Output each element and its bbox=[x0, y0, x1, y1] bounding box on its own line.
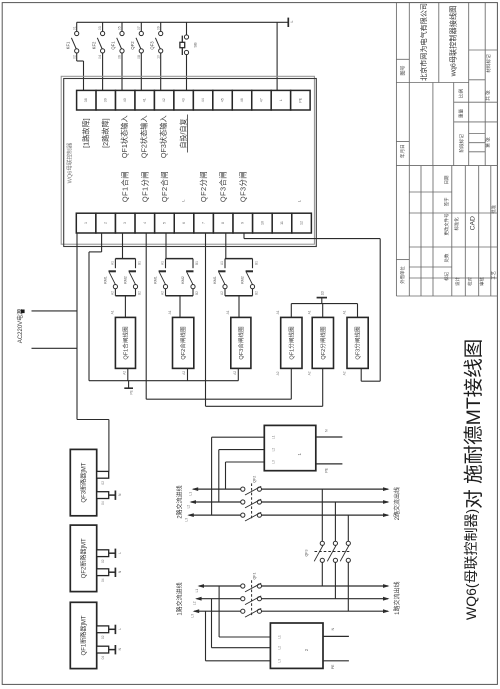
svg-text:A2: A2 bbox=[307, 371, 312, 375]
terminal strip upper pin PE bbox=[291, 90, 310, 110]
power monitor box 2 bbox=[270, 623, 323, 668]
svg-text:8: 8 bbox=[221, 222, 226, 224]
arrowheads on line ends bbox=[383, 487, 390, 491]
svg-text:A2: A2 bbox=[232, 371, 237, 375]
svg-text:B2: B2 bbox=[194, 291, 199, 295]
terminal strip lower pin 9 bbox=[233, 213, 253, 233]
svg-text:QF3分闸线圈: QF3分闸线圈 bbox=[354, 326, 362, 360]
svg-text:A1: A1 bbox=[341, 310, 346, 314]
svg-text:KM1: KM1 bbox=[104, 276, 109, 284]
svg-text:QF2合闸线圈: QF2合闸线圈 bbox=[179, 326, 187, 360]
wire QF2 to terminal 41 bbox=[140, 53, 142, 90]
wire QF1分闸线圈 top stub bbox=[290, 304, 292, 318]
svg-text:QF1断路器]MT: QF1断路器]MT bbox=[79, 615, 88, 655]
svg-text:A1: A1 bbox=[225, 310, 230, 314]
svg-text:图号: 图号 bbox=[399, 65, 406, 75]
svg-text:QF2分闸线圈: QF2分闸线圈 bbox=[319, 326, 327, 360]
svg-text:共 张: 共 张 bbox=[485, 90, 492, 101]
svg-text:校对: 校对 bbox=[467, 277, 474, 286]
svg-text:KM2: KM2 bbox=[240, 276, 245, 284]
svg-text:比例: 比例 bbox=[458, 89, 465, 99]
svg-text:QF2: QF2 bbox=[252, 476, 257, 483]
svg-text:QF3断路器]MT: QF3断路器]MT bbox=[79, 462, 88, 502]
svg-text:03: 03 bbox=[97, 26, 102, 30]
bus tie drops from 2-line bbox=[321, 489, 323, 541]
terminal strip lower pin 5 bbox=[155, 213, 175, 233]
relay contacts KM1/KM2 bbox=[165, 233, 167, 259]
coil QF2分闸线圈 bbox=[312, 317, 333, 368]
pushbutton SB1 bbox=[186, 22, 188, 35]
terminal strip upper pin 43 bbox=[174, 90, 193, 110]
svg-text:PE: PE bbox=[298, 97, 303, 102]
bus tie drops to 1-line bbox=[321, 562, 323, 586]
box2 stub PE bbox=[323, 660, 349, 662]
wire QF1 to terminal 40 bbox=[121, 53, 123, 90]
wire contacts to coil bbox=[124, 296, 126, 318]
svg-text:A1: A1 bbox=[275, 310, 280, 314]
svg-text:L: L bbox=[279, 99, 284, 101]
svg-text:wq6母联控制器接线图: wq6母联控制器接线图 bbox=[449, 6, 459, 78]
wire terminal4 to QF1 opening coil bbox=[145, 233, 147, 399]
svg-text:QF1合闸线圈: QF1合闸线圈 bbox=[121, 326, 129, 360]
coil QF3分闸线圈 bbox=[347, 317, 368, 368]
svg-text:AC220V电源: AC220V电源 bbox=[15, 309, 24, 343]
svg-text:KM2: KM2 bbox=[123, 276, 128, 284]
svg-text:QF2: QF2 bbox=[130, 41, 136, 50]
svg-text:2路交流出线: 2路交流出线 bbox=[392, 487, 401, 520]
svg-text:11: 11 bbox=[280, 221, 285, 225]
svg-text:L1: L1 bbox=[194, 589, 199, 593]
svg-text:2路交流进线: 2路交流进线 bbox=[175, 485, 184, 518]
node 2-line phase L3 bbox=[189, 514, 243, 516]
wire QF3合闸线圈 pin bbox=[237, 368, 239, 380]
wire box1 L3 to line1 bbox=[226, 461, 265, 463]
svg-text:A2: A2 bbox=[121, 371, 126, 375]
terminal strip lower pin 12 bbox=[292, 213, 312, 233]
svg-text:L: L bbox=[181, 199, 186, 201]
terminal strip upper pin L bbox=[271, 90, 290, 110]
coil QF1分闸线圈 bbox=[281, 317, 302, 368]
node L+ top supply bus bbox=[77, 21, 284, 23]
breaker QF2 three-pole bbox=[241, 487, 245, 491]
svg-text:设计: 设计 bbox=[454, 277, 461, 286]
QF3断路器 terminal B bbox=[97, 492, 109, 499]
svg-text:QF3合闸线圈: QF3合闸线圈 bbox=[237, 326, 245, 360]
switch contact KF2 bbox=[102, 22, 104, 31]
svg-text:QF1分闸线圈: QF1分闸线圈 bbox=[287, 326, 295, 360]
title block grid bbox=[395, 3, 397, 296]
svg-text:QF3: QF3 bbox=[149, 41, 155, 50]
terminal strip upper pin 41 bbox=[135, 90, 154, 110]
svg-text:A1: A1 bbox=[159, 261, 164, 265]
relay contacts KM1/KM2 bbox=[225, 233, 227, 259]
svg-text:标准化: 标准化 bbox=[453, 217, 460, 231]
svg-text:10: 10 bbox=[260, 221, 265, 225]
svg-text:L2: L2 bbox=[271, 448, 276, 452]
wire terminal9 to QF3 opening coil bbox=[243, 233, 245, 239]
QF1断路器 terminal B bbox=[97, 646, 109, 653]
terminal strip lower pin 6 bbox=[174, 213, 194, 233]
wire QF1合闸线圈 pin bbox=[127, 368, 129, 380]
breaker unit QF2断路器 bbox=[70, 525, 96, 592]
svg-text:L: L bbox=[290, 21, 295, 23]
svg-text:02: 02 bbox=[100, 635, 105, 639]
node 2-line phase L2 bbox=[191, 501, 243, 503]
svg-text:北京市网为电气有限公司: 北京市网为电气有限公司 bbox=[419, 3, 429, 81]
svg-text:12: 12 bbox=[299, 221, 304, 225]
svg-text:04: 04 bbox=[100, 501, 105, 505]
svg-text:43: 43 bbox=[182, 98, 187, 102]
svg-text:40: 40 bbox=[123, 98, 128, 102]
terminal strip upper pin 42 bbox=[154, 90, 173, 110]
svg-text:自投/自复: 自投/自复 bbox=[179, 119, 189, 149]
svg-text:QF3合闸: QF3合闸 bbox=[218, 171, 229, 202]
wire terminal7 to QF2 opening coil bbox=[205, 233, 207, 406]
svg-text:L3: L3 bbox=[189, 614, 194, 618]
wire KF2 to terminal 39 bbox=[102, 53, 104, 90]
wire QF3分闸线圈 top stub bbox=[357, 304, 359, 318]
wire box2 L2 to line2 bbox=[212, 647, 271, 649]
svg-text:QF1状态输入: QF1状态输入 bbox=[120, 115, 130, 158]
svg-text:2: 2 bbox=[104, 222, 109, 224]
terminal strip upper pin 44 bbox=[193, 90, 212, 110]
wire QF2分闸线圈 top stub bbox=[322, 304, 324, 318]
terminal strip lower pin 4 bbox=[135, 213, 155, 233]
svg-text:更改文件号: 更改文件号 bbox=[443, 213, 450, 236]
svg-text:38: 38 bbox=[84, 98, 89, 102]
svg-text:A2: A2 bbox=[275, 371, 280, 375]
svg-text:外借单位: 外借单位 bbox=[399, 266, 406, 284]
svg-text:02: 02 bbox=[100, 559, 105, 563]
switch contact QF3 bbox=[160, 22, 162, 31]
switch contact KF1 bbox=[76, 22, 78, 31]
svg-text:KM1: KM1 bbox=[213, 276, 218, 284]
svg-text:A2: A2 bbox=[341, 371, 346, 375]
svg-text:08: 08 bbox=[136, 55, 141, 59]
coil QF2合闸线圈 bbox=[173, 317, 194, 368]
AC220V source line N bbox=[32, 347, 78, 349]
svg-text:46: 46 bbox=[240, 98, 245, 102]
svg-text:04: 04 bbox=[97, 55, 102, 59]
svg-text:[1路故障]: [1路故障] bbox=[81, 118, 91, 148]
svg-text:L1: L1 bbox=[277, 635, 282, 639]
svg-text:QF2断路器]MT: QF2断路器]MT bbox=[79, 538, 88, 578]
terminal strip upper pin 38 bbox=[77, 90, 96, 110]
svg-text:QF3状态输入: QF3状态输入 bbox=[159, 115, 169, 158]
svg-text:01: 01 bbox=[71, 26, 76, 30]
svg-text:A2: A2 bbox=[219, 291, 224, 295]
terminal strip upper pin 46 bbox=[232, 90, 251, 110]
svg-text:06: 06 bbox=[117, 55, 122, 59]
terminal strip lower pin 2 bbox=[96, 213, 116, 233]
wire KF1 to terminal 38 bbox=[76, 53, 78, 61]
svg-text:第 张: 第 张 bbox=[485, 137, 492, 148]
svg-text:1路交流出线: 1路交流出线 bbox=[392, 582, 401, 615]
terminal X0 (supply) at bus right end bbox=[284, 21, 289, 23]
svg-text:L3: L3 bbox=[183, 518, 188, 522]
switch contact QF2 bbox=[140, 22, 142, 31]
svg-text:41: 41 bbox=[143, 98, 148, 102]
AC220V source line L bbox=[32, 310, 78, 312]
wire box1 L1 to line3 bbox=[212, 436, 265, 438]
svg-text:QF2状态输入: QF2状态输入 bbox=[140, 115, 150, 158]
wire bus to terminal L bbox=[276, 22, 278, 90]
terminal strip upper pin 39 bbox=[96, 90, 115, 110]
breaker QF1 three-pole bbox=[241, 584, 245, 588]
terminal 1D supply for opening coils bbox=[321, 298, 323, 304]
terminal strip lower pin 3 bbox=[115, 213, 135, 233]
svg-text:L1: L1 bbox=[271, 435, 276, 439]
node 1-line phase L2 bbox=[197, 598, 243, 600]
svg-text:L3: L3 bbox=[277, 659, 282, 663]
wire terminal2 to coil return bus bbox=[101, 233, 103, 252]
node 1-line phase L1 bbox=[199, 585, 243, 587]
svg-text:PE: PE bbox=[324, 467, 329, 472]
svg-text:材料标记: 材料标记 bbox=[485, 54, 492, 73]
svg-text:QF2分闸: QF2分闸 bbox=[198, 171, 209, 202]
terminal strip lower pin 1 bbox=[76, 213, 96, 233]
svg-text:A1: A1 bbox=[110, 310, 115, 314]
svg-text:日期: 日期 bbox=[444, 175, 450, 184]
svg-text:A1: A1 bbox=[219, 261, 224, 265]
svg-text:A1: A1 bbox=[109, 261, 114, 265]
svg-text:签字: 签字 bbox=[443, 197, 450, 206]
svg-text:9: 9 bbox=[241, 222, 246, 224]
svg-text:02: 02 bbox=[71, 55, 76, 59]
wire box2 L1 to line1 bbox=[219, 636, 270, 638]
svg-text:A1: A1 bbox=[307, 310, 312, 314]
svg-text:L2: L2 bbox=[186, 505, 191, 509]
svg-text:09: 09 bbox=[155, 26, 160, 30]
svg-text:3: 3 bbox=[123, 222, 128, 224]
svg-text:04: 04 bbox=[100, 578, 105, 582]
svg-text:QF1合闸: QF1合闸 bbox=[120, 171, 131, 202]
wire contacts to coil bbox=[238, 296, 240, 318]
wire box1 L2 to line2 bbox=[219, 449, 264, 451]
terminal strip lower pin 7 bbox=[194, 213, 214, 233]
svg-text:39: 39 bbox=[104, 98, 109, 102]
box2 stub N bbox=[323, 635, 349, 637]
wire QF3 to terminal 42 bbox=[160, 53, 162, 90]
svg-text:44: 44 bbox=[201, 98, 206, 102]
svg-text:B1: B1 bbox=[194, 261, 199, 265]
node opening coils supply bar bbox=[291, 303, 357, 305]
svg-text:工艺: 工艺 bbox=[491, 270, 497, 279]
svg-text:年月日: 年月日 bbox=[399, 144, 406, 158]
svg-text:QF3: QF3 bbox=[304, 550, 309, 557]
terminal strip upper pin 40 bbox=[116, 90, 135, 110]
box1 stub PE bbox=[316, 463, 343, 465]
svg-text:47: 47 bbox=[259, 98, 264, 102]
terminal strip lower pin 10 bbox=[253, 213, 273, 233]
svg-text:批准: 批准 bbox=[490, 204, 497, 213]
svg-text:B2: B2 bbox=[253, 291, 258, 295]
svg-text:CAD: CAD bbox=[467, 216, 477, 230]
svg-text:L1: L1 bbox=[188, 492, 193, 496]
terminal strip lower pin 8 bbox=[213, 213, 233, 233]
wire terminal1 to AC220V live and QF3 breaker bbox=[76, 233, 78, 420]
svg-text:QF2合闸: QF2合闸 bbox=[159, 171, 170, 202]
node 2-line phase L1 bbox=[193, 488, 243, 490]
svg-text:6: 6 bbox=[182, 222, 187, 224]
svg-text:1路交流进线: 1路交流进线 bbox=[175, 582, 184, 615]
svg-text:KF1: KF1 bbox=[65, 41, 71, 49]
coil QF1合闸线圈 bbox=[115, 317, 135, 368]
svg-text:L2: L2 bbox=[277, 646, 282, 650]
svg-text:处数: 处数 bbox=[443, 253, 450, 262]
svg-text:SB: SB bbox=[193, 42, 199, 48]
svg-text:45: 45 bbox=[220, 98, 225, 102]
QF1断路器 terminal B plug bbox=[109, 649, 116, 651]
svg-text:PE: PE bbox=[128, 390, 133, 394]
svg-text:L: L bbox=[117, 628, 122, 630]
box1 stub N bbox=[316, 436, 343, 438]
relay contacts KM1/KM2 bbox=[122, 233, 124, 259]
svg-text:PE: PE bbox=[330, 664, 335, 669]
wire QF2合闸线圈 pin bbox=[187, 368, 189, 380]
coil return bus 0V bbox=[89, 380, 238, 382]
svg-text:QF1分闸: QF1分闸 bbox=[139, 171, 150, 202]
svg-text:标记: 标记 bbox=[443, 271, 450, 280]
svg-text:7: 7 bbox=[202, 222, 207, 224]
QF1断路器 terminal A bbox=[97, 626, 109, 633]
svg-text:QF1: QF1 bbox=[111, 41, 117, 50]
QF2断路器 terminal A plug bbox=[109, 552, 116, 554]
svg-text:B2: B2 bbox=[136, 291, 141, 295]
wire contacts to coil bbox=[179, 296, 181, 318]
svg-text:重量: 重量 bbox=[458, 109, 465, 119]
svg-text:WQ6母联控制器: WQ6母联控制器 bbox=[65, 142, 73, 183]
switch contact QF1 bbox=[121, 22, 123, 31]
breaker unit QF3断路器 bbox=[70, 449, 96, 515]
breaker QF3 bus tie three-pole bbox=[320, 541, 324, 545]
QF2断路器 terminal B bbox=[97, 569, 109, 576]
svg-text:02: 02 bbox=[100, 481, 105, 485]
svg-text:L2: L2 bbox=[192, 601, 197, 605]
wire SB1 to terminal 43 bbox=[186, 55, 188, 91]
terminal strip lower pin 11 bbox=[272, 213, 292, 233]
QF3断路器 terminal B plug bbox=[109, 494, 116, 496]
svg-text:KM1: KM1 bbox=[154, 276, 159, 284]
svg-text:审核: 审核 bbox=[479, 277, 486, 286]
svg-text:07: 07 bbox=[136, 26, 141, 30]
svg-text:4: 4 bbox=[143, 222, 148, 224]
breaker unit QF1断路器 bbox=[70, 602, 96, 668]
svg-text:A2: A2 bbox=[181, 371, 186, 375]
svg-text:KM2: KM2 bbox=[181, 276, 186, 284]
svg-text:B1: B1 bbox=[253, 261, 258, 265]
svg-text:KF2: KF2 bbox=[91, 41, 97, 49]
ground PE at QF1 closing coil bbox=[128, 381, 130, 388]
svg-text:L: L bbox=[297, 200, 302, 202]
coil QF3合闸线圈 bbox=[231, 317, 251, 368]
power monitor box 1 bbox=[264, 425, 316, 470]
svg-text:42: 42 bbox=[162, 98, 167, 102]
svg-text:L: L bbox=[117, 552, 122, 554]
controller block WQ6 outline bbox=[61, 76, 314, 244]
svg-text:1: 1 bbox=[84, 222, 89, 224]
svg-text:[2路故障]: [2路故障] bbox=[101, 118, 111, 148]
svg-text:A2: A2 bbox=[159, 291, 164, 295]
svg-text:1D: 1D bbox=[319, 290, 324, 295]
svg-text:B1: B1 bbox=[136, 261, 141, 265]
terminal strip upper pin 47 bbox=[252, 90, 271, 110]
QF2断路器 terminal B plug bbox=[109, 571, 116, 573]
svg-text:5: 5 bbox=[162, 222, 167, 224]
QF2断路器 terminal A bbox=[97, 550, 109, 557]
svg-text:L3: L3 bbox=[271, 460, 276, 464]
node 1-line phase L3 bbox=[194, 610, 243, 612]
svg-text:A1: A1 bbox=[167, 310, 172, 314]
svg-text:04: 04 bbox=[100, 656, 105, 660]
svg-text:A2: A2 bbox=[109, 291, 114, 295]
QF1断路器 terminal A plug bbox=[109, 628, 116, 630]
svg-text:10: 10 bbox=[155, 55, 160, 59]
svg-text:阶段标记: 阶段标记 bbox=[458, 134, 465, 153]
QF3断路器 terminal A bbox=[97, 471, 109, 478]
terminal strip upper pin 45 bbox=[213, 90, 232, 110]
svg-text:QF1: QF1 bbox=[252, 573, 257, 580]
wire box2 L3 to line3 bbox=[206, 660, 271, 662]
svg-text:QF3分闸: QF3分闸 bbox=[237, 171, 248, 202]
svg-text:05: 05 bbox=[117, 26, 122, 30]
